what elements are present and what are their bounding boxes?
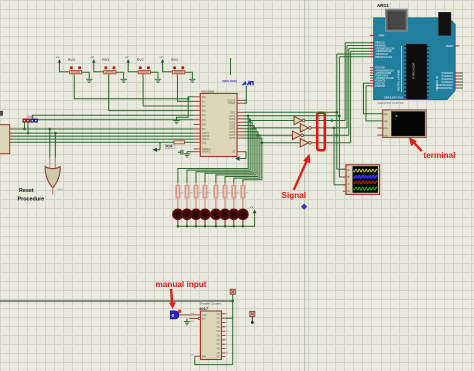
wire OR input 2 — [54, 133, 56, 158]
annotation arrow terminal — [413, 141, 422, 151]
svg-text:ATMEGA328P: ATMEGA328P — [412, 62, 416, 79]
wire inverter U4C output — [304, 134, 349, 136]
svg-text:PC0/ADC0: PC0/ADC0 — [442, 72, 454, 75]
LED D7 — [229, 209, 239, 219]
small part cropped at left edge — [0, 111, 3, 115]
wire bundle 3 up to Arduino — [348, 48, 350, 135]
svg-text:VREF(-): VREF(-) — [202, 152, 211, 154]
junction — [331, 119, 334, 122]
Arduino left pin stubs — [370, 34, 374, 36]
wire to scope B — [338, 57, 340, 177]
wire OUT1 across — [248, 115, 339, 117]
wire RV2 to ground — [150, 72, 158, 79]
svg-text:+V: +V — [90, 55, 94, 59]
wire Arduino RX to terminal — [366, 86, 383, 121]
wire +V to RV4 — [59, 66, 69, 72]
wire bus ALE — [12, 141, 174, 143]
power arrow OE — [235, 156, 239, 161]
Arduino power jack — [439, 12, 451, 35]
wire RV3 wiper to ADC — [109, 76, 194, 110]
inverter U4D — [300, 139, 308, 147]
wire +V to RV3 — [94, 66, 104, 72]
wire ADC OUT1 to R1 — [178, 116, 248, 183]
wire bundle 1 up to Arduino — [344, 43, 346, 121]
wire to inverter U4A — [250, 120, 294, 122]
counter U6 left pin stubs — [195, 314, 201, 316]
wire RV2 wiper to ADC — [143, 76, 193, 106]
wire to scope A — [336, 54, 338, 169]
ADC U2 body — [200, 93, 237, 156]
svg-text:ADD A: ADD A — [202, 132, 209, 135]
or-gate U5 — [45, 167, 60, 188]
wire ADC OUT6 to R6 — [225, 132, 258, 183]
svg-text:MR: MR — [202, 355, 206, 358]
ADC U2 right pin stubs — [237, 115, 244, 117]
wire ADC OUT4 to R4 — [205, 126, 254, 184]
resistor R5 — [215, 183, 217, 185]
ground RV1 — [189, 78, 195, 80]
wire stub above ADC — [230, 58, 232, 75]
svg-text:CO: CO — [216, 357, 220, 359]
svg-text:OUT1: OUT1 — [229, 116, 236, 118]
svg-text:C: C — [348, 182, 350, 186]
OR gate output stub — [52, 188, 54, 195]
inverter U4C — [293, 131, 301, 139]
svg-text:+V: +V — [250, 205, 254, 209]
resistor R2 — [186, 183, 188, 185]
Arduino USB connector — [386, 9, 408, 31]
svg-text:OE: OE — [232, 152, 236, 154]
wire +V to RV1 — [163, 66, 173, 72]
wire bus ADD B — [12, 135, 193, 137]
wire to inverter U4D — [262, 142, 300, 144]
inverter U4B — [300, 124, 308, 132]
capacitor C1 — [180, 150, 182, 155]
resistor R1 — [177, 183, 179, 185]
wire OR input 1 — [49, 129, 51, 158]
ADC U2 left pin stubs — [193, 96, 200, 98]
svg-text:OUT3: OUT3 — [229, 122, 236, 124]
Arduino silkscreen — [401, 46, 403, 92]
wire ADC OUT5 to R5 — [216, 129, 256, 183]
wire to ADC IN4 — [32, 115, 193, 119]
ground near ADC — [173, 120, 179, 122]
resistor R4 — [204, 183, 206, 185]
svg-text:D: D — [348, 189, 350, 193]
wire RV1 wiper to ADC — [178, 76, 194, 101]
wire bundle 2 up to Arduino — [346, 46, 348, 128]
Arduino ARD1 board — [374, 18, 456, 100]
svg-text:ADD C: ADD C — [202, 138, 209, 141]
svg-text:VREF(+): VREF(+) — [202, 149, 211, 151]
svg-text:EOC: EOC — [230, 112, 235, 114]
wire stub with left arrow — [159, 142, 161, 150]
svg-text:0: 0 — [172, 313, 175, 318]
svg-text:TXD: TXD — [383, 121, 388, 123]
svg-text:PB5/SCK: PB5/SCK — [375, 43, 385, 45]
wire to ADC IN5 — [36, 118, 194, 121]
svg-text:~PB1/OC1A: ~PB1/OC1A — [375, 53, 388, 56]
LED D8 — [238, 209, 248, 219]
counter U6 body — [201, 311, 222, 360]
svg-text:terminal: terminal — [424, 151, 456, 160]
svg-text:ADC0808: ADC0808 — [201, 89, 214, 93]
svg-text:RV3: RV3 — [102, 58, 109, 62]
Arduino right pin stubs — [455, 72, 459, 74]
ground VREF — [184, 153, 190, 155]
junction — [247, 115, 250, 118]
svg-text:RJ4: RJ4 — [166, 145, 172, 149]
LED D6 — [220, 209, 230, 219]
wire VREF(-) — [187, 151, 193, 153]
svg-text:~PB3/MOSI/OC2A: ~PB3/MOSI/OC2A — [375, 47, 395, 50]
svg-text:CLOCK: CLOCK — [227, 100, 235, 102]
ground for 4017 EN — [186, 318, 188, 321]
svg-text:Procedure: Procedure — [18, 196, 45, 202]
oscilloscope — [346, 165, 380, 195]
svg-text:PC4/ADC4/SDA: PC4/ADC4/SDA — [436, 84, 453, 87]
svg-text:EN: EN — [202, 318, 206, 321]
LED D3 — [191, 209, 201, 219]
wire inverter U4A output — [305, 120, 345, 122]
annotation arrow Signal — [294, 160, 307, 190]
counter U6 right pin stubs — [222, 313, 226, 315]
svg-text:+V: +V — [159, 55, 163, 59]
wire inverter U4B output — [311, 127, 347, 129]
connector J1 — [23, 119, 27, 122]
svg-text:Reset: Reset — [19, 188, 34, 194]
svg-text:Signal: Signal — [282, 191, 307, 200]
svg-text:RV4: RV4 — [68, 58, 75, 62]
wire D1 to 4017 CLK — [179, 314, 195, 316]
svg-text:Decade Counter: Decade Counter — [200, 301, 221, 305]
svg-text:PC1/ADC1: PC1/ADC1 — [442, 75, 454, 78]
wire +V to RV2 — [128, 66, 138, 72]
wire bundle 4 up to Arduino — [350, 51, 352, 143]
svg-text:OUT4: OUT4 — [229, 126, 236, 128]
svg-text:4017: 4017 — [199, 306, 209, 311]
svg-text:AREF: AREF — [378, 34, 385, 37]
svg-text:RESET: RESET — [446, 46, 454, 48]
svg-text:START: START — [228, 102, 236, 105]
svg-text:SIMULINO UNO: SIMULINO UNO — [384, 95, 403, 99]
highlight box Signal — [317, 113, 325, 150]
svg-text:RTS: RTS — [383, 128, 388, 130]
svg-text:Output: Output — [27, 115, 35, 119]
wire ADC OUT7 to R7 — [234, 135, 260, 183]
svg-text:RV1: RV1 — [171, 58, 178, 62]
annotation arrow manual input — [171, 289, 172, 303]
resistor R3 — [195, 183, 197, 185]
LED D2 — [182, 209, 192, 219]
IC U3 (cropped at left edge) — [0, 125, 10, 154]
wire inverter U4D output — [311, 142, 350, 144]
svg-text:PD0/RXD: PD0/RXD — [375, 86, 385, 88]
guide line — [304, 0, 306, 371]
wire to analog ground — [177, 99, 189, 121]
svg-text:U5:A: U5:A — [58, 189, 64, 192]
svg-text:CTS: CTS — [383, 135, 388, 137]
wire bus IN7 — [12, 128, 193, 130]
wire OE — [239, 152, 246, 159]
inverter U4A — [294, 116, 302, 124]
svg-text:PB0/ICP1/CLKO: PB0/ICP1/CLKO — [375, 57, 392, 59]
svg-text:~PD6/AIN0/OC0A: ~PD6/AIN0/OC0A — [375, 69, 394, 72]
svg-text:U2(CLOCK): U2(CLOCK) — [222, 79, 237, 83]
svg-text:ARD1: ARD1 — [377, 3, 390, 8]
wire rail to +V — [254, 217, 256, 227]
wire ADC OUT2 to R2 — [187, 119, 250, 183]
junction — [187, 98, 190, 101]
wire to scope C — [333, 128, 335, 185]
LED D5 — [211, 209, 221, 219]
svg-text:A: A — [348, 168, 350, 172]
logic state D1 — [170, 311, 179, 319]
wire long bus to clock — [0, 300, 233, 302]
svg-text:PC3/ADC3: PC3/ADC3 — [442, 81, 454, 84]
svg-text:OUT6: OUT6 — [229, 132, 236, 134]
wire bus ADD C — [12, 138, 193, 140]
wire ADC OUT8 to R8 — [243, 138, 262, 183]
wire CLOCK-START — [244, 100, 247, 103]
svg-text:PB4/MISO: PB4/MISO — [375, 46, 386, 48]
svg-text:ALE: ALE — [202, 141, 207, 144]
resistor R6 — [224, 183, 226, 185]
wire Arduino TX to terminal — [364, 83, 383, 114]
wire EOC across — [244, 111, 337, 113]
wire connector pin 1 to bus — [24, 122, 26, 129]
terminal marker T1 — [230, 289, 235, 294]
wire RV1 to ground — [185, 72, 193, 79]
wire MR loop — [195, 356, 233, 364]
svg-text:OUT2: OUT2 — [229, 119, 236, 121]
svg-text:RV2: RV2 — [137, 58, 144, 62]
terminal marker T2 — [250, 311, 255, 316]
wire to inverter U4B — [254, 127, 300, 129]
wire bus ADD A — [12, 132, 193, 134]
resistor R8 — [242, 183, 244, 185]
LED D4 — [200, 209, 210, 219]
resistor R7 — [233, 183, 235, 185]
wire O0 to marker — [232, 294, 234, 364]
ground RV2 — [155, 78, 161, 80]
origin marker — [301, 203, 307, 209]
svg-text:+V: +V — [125, 55, 129, 59]
junction — [335, 134, 338, 137]
svg-text:PD7/AIN1: PD7/AIN1 — [375, 67, 386, 70]
svg-text:ARDUINO UNO R3: ARDUINO UNO R3 — [378, 101, 404, 105]
OR gate U5 input stubs — [49, 158, 51, 169]
svg-text:OUT8: OUT8 — [229, 138, 236, 140]
svg-text:OUT5: OUT5 — [229, 129, 236, 131]
svg-text:~PB2/SS/OC1B: ~PB2/SS/OC1B — [375, 51, 392, 53]
wire RV3 to ground — [116, 72, 124, 79]
ground RV3 — [120, 78, 126, 80]
resistor RJ4 — [174, 141, 185, 144]
junction — [333, 127, 336, 130]
wire RJ4 to ADC ALE — [185, 141, 194, 143]
ground RV4 — [86, 78, 92, 80]
svg-text:RXD: RXD — [383, 114, 388, 116]
wire LED cathode rail — [178, 225, 255, 227]
wire connector pin 2 to bus — [27, 122, 29, 133]
svg-text:manual input: manual input — [156, 280, 207, 289]
svg-text:OUT7: OUT7 — [229, 135, 236, 137]
virtual terminal — [383, 110, 427, 138]
svg-text:B: B — [348, 175, 350, 179]
svg-text:ADD B: ADD B — [202, 135, 209, 138]
wire to inverter U4C — [258, 134, 293, 136]
wire RV4 wiper to ADC — [74, 76, 193, 99]
Arduino ATmega328 chip — [407, 44, 427, 99]
svg-text:DIGITAL (~PWM): DIGITAL (~PWM) — [396, 70, 400, 91]
svg-text:PC5/ADC5/SCL: PC5/ADC5/SCL — [436, 87, 453, 90]
wire RV4 to ground — [82, 72, 90, 79]
LED D1 — [173, 209, 183, 219]
wire ADC OUT3 to R3 — [196, 122, 252, 183]
svg-text:+V: +V — [56, 55, 60, 59]
svg-text:PC2/ADC2: PC2/ADC2 — [442, 78, 454, 81]
